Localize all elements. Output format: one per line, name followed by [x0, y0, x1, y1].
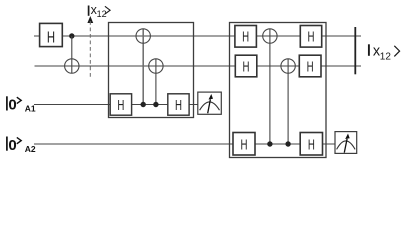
wire q3 ancilla A1	[34, 104, 199, 106]
wire q4 ancilla A2	[34, 143, 336, 145]
output label |x12>	[369, 43, 400, 62]
gate H6 on q1	[300, 26, 321, 48]
svg-text:H: H	[117, 97, 124, 114]
control dot on q4 (second)	[285, 141, 290, 146]
svg-text:0: 0	[8, 137, 16, 154]
gate H8 on q4	[233, 133, 255, 156]
gate H3 on q3	[168, 94, 189, 115]
node label |x12> (top marker)	[89, 3, 111, 19]
cnot target on q1	[136, 29, 150, 43]
gate H5 on q2	[235, 55, 256, 77]
state label |0>_A1	[7, 96, 36, 113]
svg-text:H: H	[241, 136, 248, 153]
control line q4 to q1 target	[269, 29, 271, 144]
output terminator bar	[354, 27, 356, 74]
svg-text:0: 0	[8, 97, 16, 114]
control line q1 to q2 target	[71, 36, 73, 73]
svg-text:H: H	[243, 59, 250, 76]
svg-text:A1: A1	[25, 104, 36, 114]
gate H2 on q3	[110, 94, 131, 115]
control line q3 to q2 target	[155, 59, 157, 105]
svg-text:H: H	[308, 29, 315, 46]
cnot target on q1	[263, 29, 277, 43]
control line q4 to q2 target	[287, 59, 289, 144]
measurement meter M2 on q4	[335, 132, 357, 154]
svg-text:H: H	[307, 59, 314, 76]
state label |0>_A2	[7, 137, 36, 154]
marker dashed line	[89, 21, 91, 78]
gate H4 on q1	[235, 26, 257, 48]
control dot on q3 (first)	[141, 102, 146, 107]
control dot on q4 (first)	[267, 141, 272, 146]
control dot on q1 (CNOT q1->q2)	[69, 33, 74, 38]
wire q2	[35, 65, 362, 67]
gate H9 on q4	[300, 133, 322, 156]
svg-text:12: 12	[380, 52, 392, 63]
control line q3 to q1 target	[142, 29, 144, 105]
svg-text:H: H	[175, 97, 182, 114]
gate H1 on q1	[40, 23, 63, 46]
marker arrow head	[87, 16, 93, 23]
cnot target on q2	[65, 59, 79, 73]
svg-text:H: H	[308, 136, 315, 153]
control dot on q3 (second)	[153, 102, 158, 107]
wire q1	[34, 35, 361, 37]
group box (right block)	[230, 23, 327, 158]
cnot target on q2	[149, 59, 163, 73]
cnot target on q2	[281, 59, 295, 73]
group box (middle block)	[109, 23, 194, 118]
measurement meter M1 on q3	[198, 92, 222, 114]
svg-text:A2: A2	[25, 144, 36, 154]
svg-text:H: H	[242, 29, 249, 46]
gate H7 on q2	[299, 55, 321, 77]
svg-text:H: H	[47, 29, 55, 46]
